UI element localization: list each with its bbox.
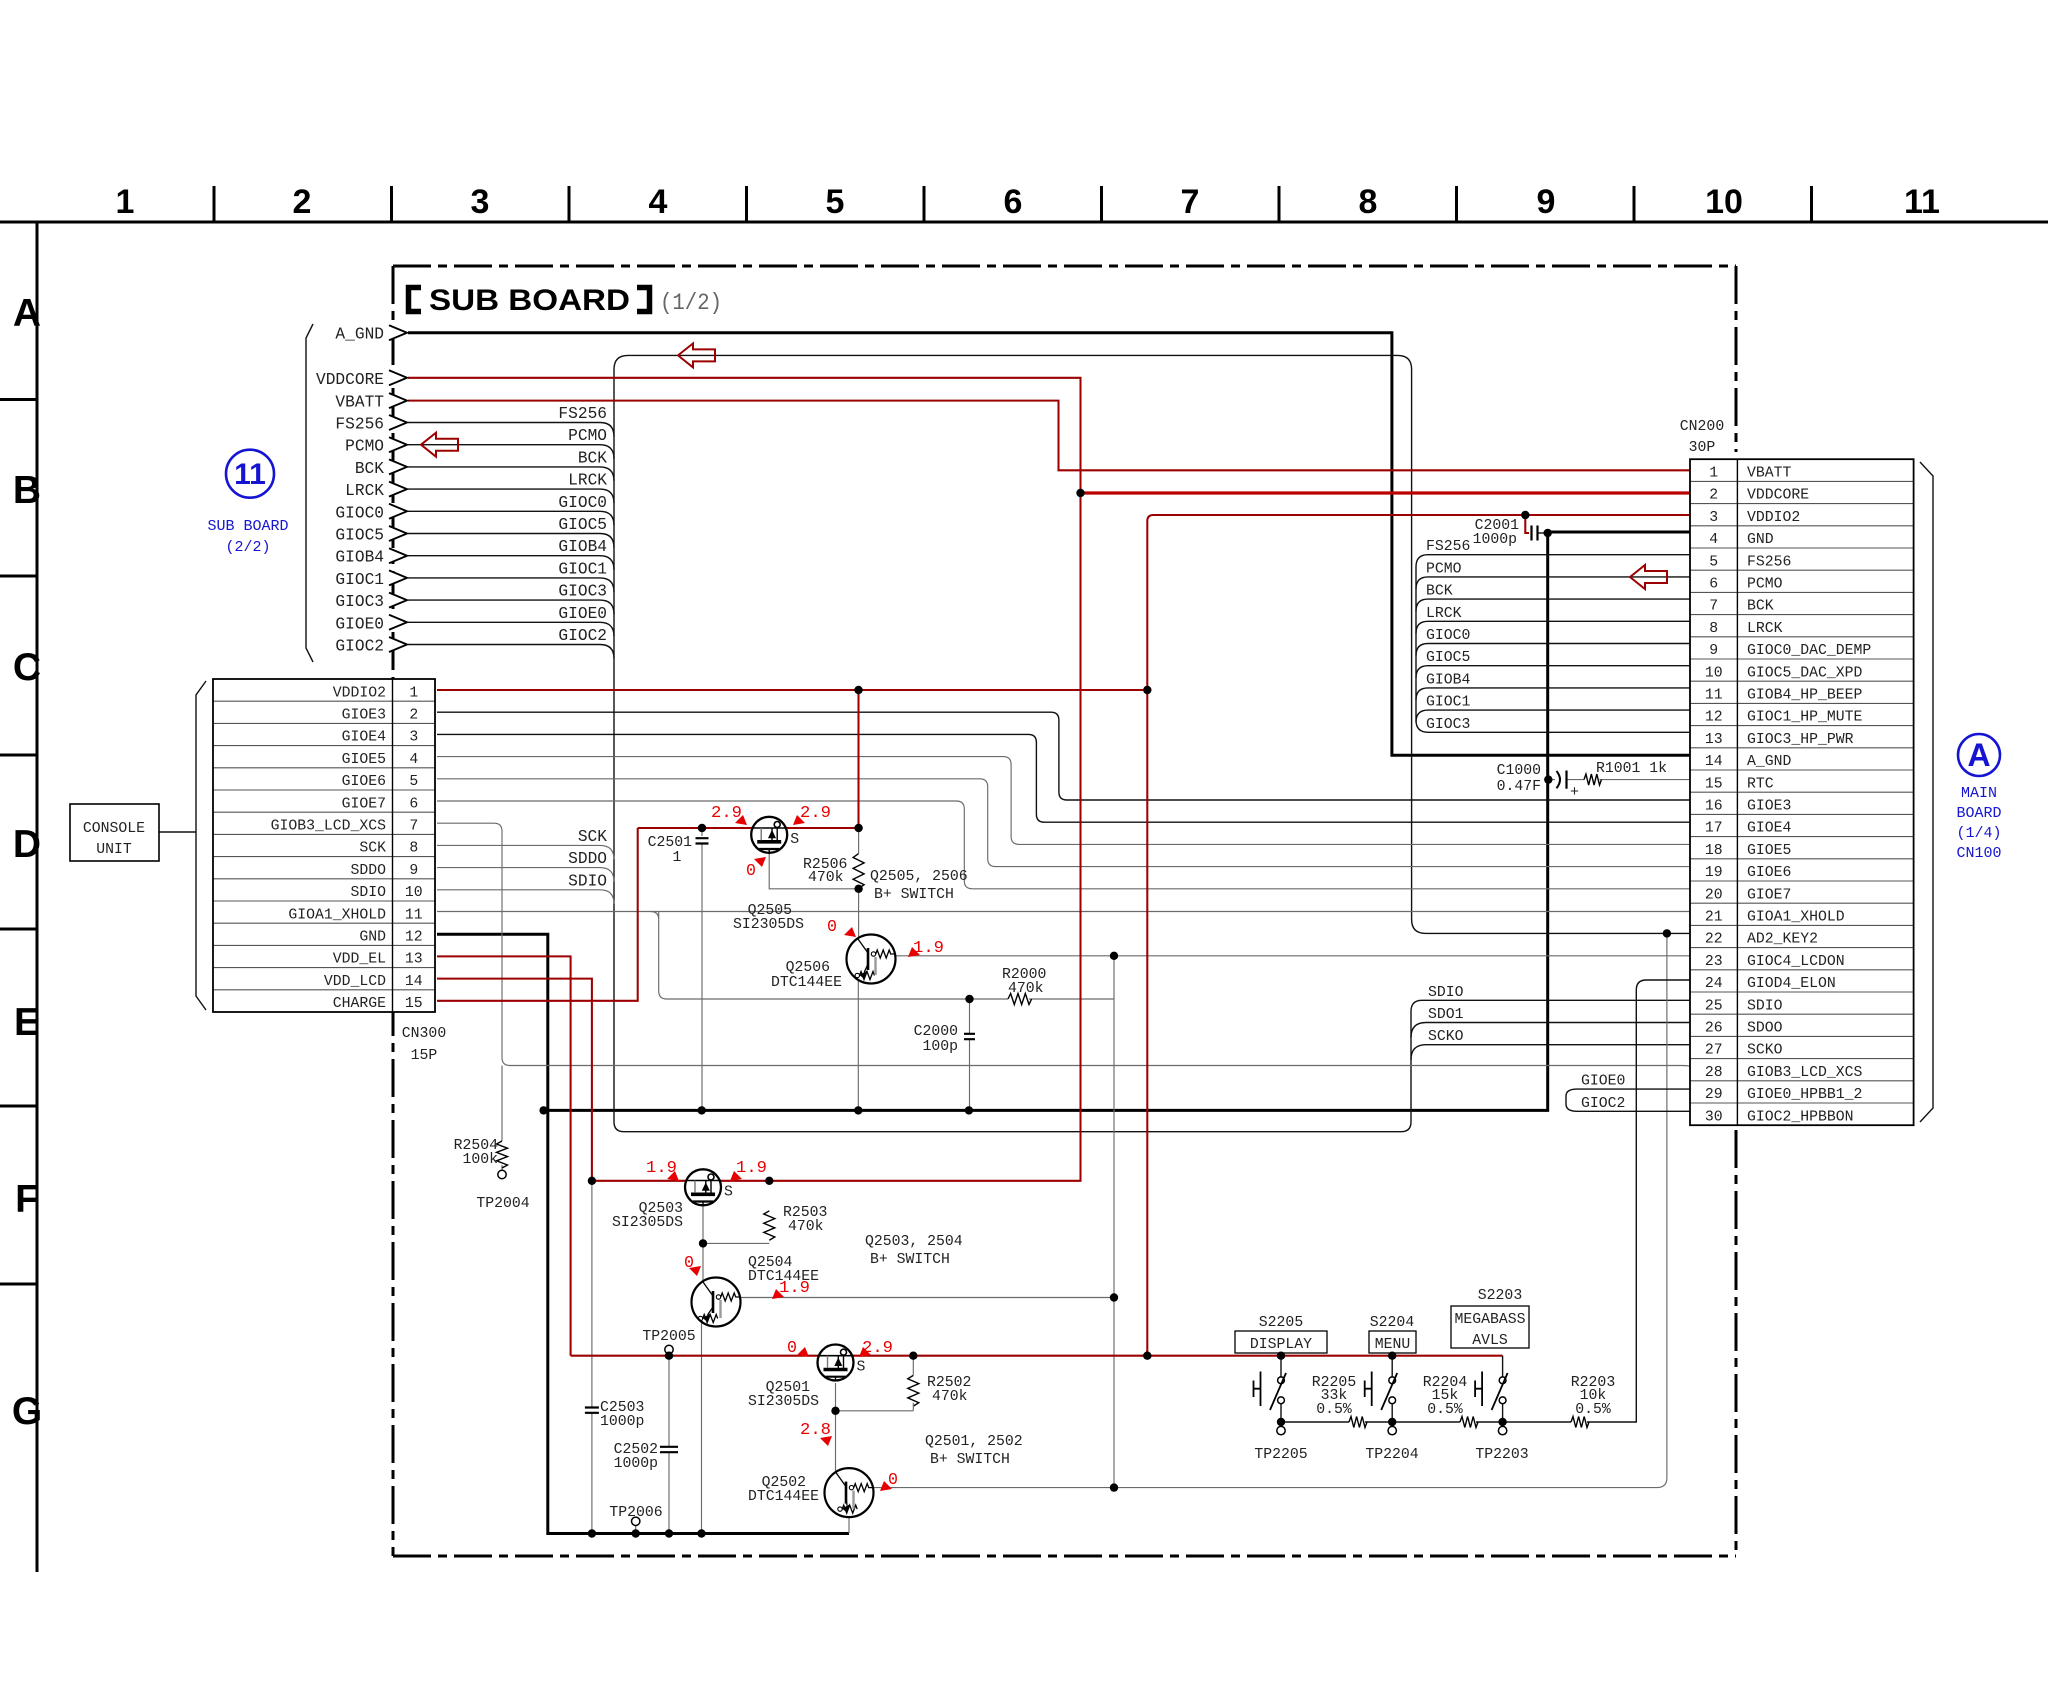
transistor Q2504 DTC144EE: [692, 1278, 741, 1327]
wire chevron LRCK merge: [408, 489, 614, 503]
svg-text:VDDIO2: VDDIO2: [333, 685, 386, 701]
wire Q2505 source row CHARGE to VDDIO2 node: [638, 827, 859, 829]
svg-text:PCMO: PCMO: [1426, 561, 1462, 577]
svg-text:SDIO: SDIO: [350, 885, 386, 901]
svg-text:GIOC2: GIOC2: [1581, 1096, 1625, 1112]
svg-text:GIOE5: GIOE5: [342, 752, 386, 768]
wire SDO1 stub merge: [1411, 1023, 1690, 1038]
wire chevron GIOE0 merge: [408, 622, 614, 636]
wire GIOE4 CN300 pin3 to CN200 pin17: [437, 734, 1690, 822]
svg-text:GIOE7: GIOE7: [1747, 887, 1791, 903]
svg-text:GIOE6: GIOE6: [1747, 865, 1791, 881]
svg-text:VDDIO2: VDDIO2: [1747, 510, 1800, 526]
svg-text:PCMO: PCMO: [345, 438, 384, 456]
svg-text:C2000: C2000: [914, 1024, 958, 1040]
svg-text:1.9: 1.9: [736, 1158, 767, 1177]
wire TP2006 stub: [635, 1526, 637, 1534]
svg-text:GIOC5: GIOC5: [1426, 650, 1470, 666]
svg-text:AD2_KEY2: AD2_KEY2: [1747, 932, 1818, 948]
svg-text:SDIO: SDIO: [1428, 985, 1464, 1001]
svg-text:GIOC1: GIOC1: [335, 571, 384, 589]
svg-text:S: S: [790, 832, 799, 848]
svg-text:VBATT: VBATT: [1747, 466, 1792, 482]
capacitor C2503: [585, 1408, 599, 1413]
wire GND CN200 pin4 to GND rail: [548, 532, 1690, 1110]
svg-text:GIOB4: GIOB4: [335, 549, 384, 567]
svg-text:3: 3: [471, 183, 490, 221]
wire VDD_LCD CN300 pin14 down to Q2503 rail: [437, 979, 592, 1181]
test point TP2004: [498, 1170, 506, 1178]
svg-text:GIOC0_DAC_DEMP: GIOC0_DAC_DEMP: [1747, 643, 1871, 659]
direction arrow near PCMO chevron: [421, 433, 458, 457]
wire GIOB3_LCD_XCS CN300 pin7 to CN200 pin28: [437, 823, 1690, 1067]
svg-text:BCK: BCK: [355, 460, 384, 478]
svg-text:GIOC1: GIOC1: [558, 560, 607, 578]
svg-text:SI2305DS: SI2305DS: [733, 917, 804, 933]
svg-text:100p: 100p: [922, 1039, 958, 1055]
wire chevron GIOC2 merge: [408, 645, 614, 659]
console unit box: [70, 804, 159, 861]
wire C2502 TP2005 branch leads: [668, 1356, 670, 1534]
svg-text:14: 14: [405, 974, 423, 990]
svg-text:VDDCORE: VDDCORE: [1747, 488, 1809, 504]
svg-text:TP2005: TP2005: [642, 1329, 695, 1345]
svg-text:TP2006: TP2006: [609, 1505, 662, 1521]
svg-text:GIOC2: GIOC2: [558, 627, 607, 645]
switch S2205: [1254, 1356, 1287, 1435]
svg-text:11: 11: [1904, 183, 1940, 221]
svg-text:11: 11: [1705, 688, 1723, 704]
svg-text:GIOC1_HP_MUTE: GIOC1_HP_MUTE: [1747, 710, 1863, 726]
wire left bus chevron FS256 merge into V1: [408, 423, 614, 437]
svg-text:MAIN: MAIN: [1961, 785, 1997, 802]
svg-text:2.8: 2.8: [800, 1420, 831, 1439]
wire C2001 black lead to GND: [1538, 532, 1548, 534]
resistor R2503: [764, 1211, 775, 1240]
svg-text:24: 24: [1705, 976, 1723, 992]
wire chevron GIOC3 merge: [408, 600, 614, 614]
transistor Q2505 MOSFET: [751, 817, 799, 853]
wire GIOA1_XHOLD CN300 pin11 to CN200 pin21: [437, 911, 1690, 913]
svg-text:20: 20: [1705, 887, 1723, 903]
svg-text:B: B: [13, 469, 41, 512]
svg-text:GIOA1_XHOLD: GIOA1_XHOLD: [288, 907, 386, 923]
svg-text:3: 3: [1709, 510, 1718, 526]
wire LRCK stub merge: [1416, 621, 1690, 633]
svg-text:14: 14: [1705, 754, 1723, 770]
wire GIOC0 stub merge: [1416, 644, 1690, 656]
svg-text:3: 3: [409, 730, 418, 746]
sub board dashed border right (split around CN200 table): [1735, 266, 1738, 452]
svg-text:10: 10: [1705, 183, 1743, 221]
svg-text:GIOB3_LCD_XCS: GIOB3_LCD_XCS: [271, 819, 387, 835]
svg-text:470k: 470k: [1008, 981, 1044, 997]
svg-text:LRCK: LRCK: [1747, 621, 1783, 637]
resistor R2502: [908, 1375, 919, 1406]
svg-text:A: A: [13, 292, 41, 335]
svg-text:13: 13: [1705, 732, 1723, 748]
wire switch ladder resistor line: [1281, 1421, 1571, 1423]
svg-text:S: S: [857, 1360, 866, 1376]
reference circle A MAIN BOARD 1/4 CN100: [1956, 734, 2001, 862]
left chevron signal stubs: [316, 325, 407, 655]
svg-text:A: A: [1967, 737, 1990, 773]
transistor Q2503 MOSFET: [685, 1169, 733, 1205]
svg-text:SUB BOARD: SUB BOARD: [429, 284, 630, 317]
svg-text:GIOE3: GIOE3: [1747, 799, 1791, 815]
wire C2501 leads: [701, 828, 703, 1110]
red voltage annotations: [646, 803, 944, 1491]
wire C2503 branch leads: [591, 1181, 593, 1534]
svg-text:GIOE0_HPBB1_2: GIOE0_HPBB1_2: [1747, 1087, 1862, 1103]
svg-text:4: 4: [1709, 532, 1718, 548]
svg-text:GIOE3: GIOE3: [342, 708, 386, 724]
svg-text:GIOE0: GIOE0: [558, 605, 607, 623]
svg-text:470k: 470k: [932, 1389, 968, 1405]
wire R2000 line right portion to x1114: [1029, 998, 1114, 1000]
wire VDDIO2 CN200 pin3 to switches rail: [1141, 515, 1690, 1356]
svg-text:FS256: FS256: [558, 405, 607, 423]
svg-text:SCK: SCK: [578, 828, 607, 846]
svg-text:BOARD: BOARD: [1956, 805, 2001, 822]
svg-text:15: 15: [405, 996, 423, 1012]
wire switches S rail: [571, 1355, 1503, 1357]
svg-text:19: 19: [1705, 865, 1723, 881]
svg-text:5: 5: [1709, 554, 1718, 570]
svg-text:5: 5: [826, 183, 845, 221]
svg-text:1000p: 1000p: [1473, 532, 1517, 548]
svg-text:AVLS: AVLS: [1472, 1333, 1508, 1349]
svg-text:15P: 15P: [411, 1048, 438, 1064]
wire A_GND thick black from chevron to CN200 pin14: [408, 333, 1690, 756]
direction arrow on top bus wire: [678, 343, 715, 367]
svg-text:R1001 1k: R1001 1k: [1596, 761, 1667, 777]
svg-text:+: +: [1570, 784, 1579, 801]
svg-text:7: 7: [1181, 183, 1200, 221]
svg-text:TP2004: TP2004: [476, 1196, 529, 1212]
svg-text:4: 4: [409, 752, 418, 768]
svg-text:FS256: FS256: [1747, 554, 1791, 570]
svg-text:CN200: CN200: [1680, 419, 1724, 435]
wire GIOB4 stub merge: [1416, 688, 1690, 700]
svg-text:GIOB4_HP_BEEP: GIOB4_HP_BEEP: [1747, 688, 1863, 704]
svg-text:2: 2: [1709, 488, 1718, 504]
svg-text:C1000: C1000: [1497, 763, 1541, 779]
wire gate node down to Q2504 base: [702, 1243, 704, 1281]
wire SCK merge into V1: [437, 845, 614, 859]
wire chevron BCK merge: [408, 467, 614, 481]
left ruler row ticks: [0, 400, 37, 1285]
svg-text:10: 10: [405, 885, 423, 901]
svg-text:GIOC5_DAC_XPD: GIOC5_DAC_XPD: [1747, 665, 1863, 681]
svg-text:GIOC3: GIOC3: [335, 593, 384, 611]
svg-text:TP2203: TP2203: [1475, 1447, 1528, 1463]
svg-text:CONSOLE: CONSOLE: [83, 821, 145, 837]
capacitor C2000: [964, 1034, 975, 1039]
svg-text:2: 2: [409, 708, 418, 724]
svg-text:GIOC3: GIOC3: [1426, 717, 1470, 733]
svg-text:13: 13: [405, 952, 423, 968]
svg-text:1: 1: [116, 183, 135, 221]
svg-text:MEGABASS: MEGABASS: [1454, 1312, 1525, 1328]
svg-text:GIOE4: GIOE4: [1747, 821, 1792, 837]
svg-text:0.5%: 0.5%: [1427, 1402, 1463, 1418]
transistor Q2502 DTC144EE: [825, 1468, 874, 1517]
svg-text:0: 0: [746, 861, 756, 880]
svg-text:B+ SWITCH: B+ SWITCH: [930, 1452, 1010, 1468]
svg-text:21: 21: [1705, 910, 1723, 926]
svg-text:0.47F: 0.47F: [1497, 779, 1541, 795]
wire VDD_EL CN300 pin13 down to switch rail corner: [437, 956, 571, 1355]
resistor R2504: [497, 1141, 508, 1168]
svg-text:GIOB3_LCD_XCS: GIOB3_LCD_XCS: [1747, 1065, 1863, 1081]
wire signal bus single line: pin25 SDIO stub, down right bus, bottom run, V1 up, top run, pin22 AD2_KEY2: [614, 355, 1690, 1131]
svg-text:1.9: 1.9: [779, 1278, 810, 1297]
svg-text:DTC144EE: DTC144EE: [771, 975, 842, 991]
bracket right of CN200: [1920, 462, 1933, 1122]
svg-text:D: D: [13, 823, 41, 866]
svg-text:SCKO: SCKO: [1428, 1029, 1464, 1045]
wire XHOLD branch down to R2000 line: [651, 912, 1008, 1000]
svg-text:SDIO: SDIO: [568, 872, 607, 890]
svg-text:0.5%: 0.5%: [1316, 1402, 1352, 1418]
wire CHARGE CN300 pin15: [437, 828, 638, 1001]
svg-text:A_GND: A_GND: [1747, 754, 1792, 770]
wire R2504 branch and TP2004: [501, 1066, 503, 1171]
wire GIOE6 CN300 pin5 to CN200 pin19: [437, 779, 1690, 867]
svg-text:6: 6: [1709, 577, 1718, 593]
svg-text:GIOC4_LCDON: GIOC4_LCDON: [1747, 954, 1845, 970]
svg-text:BCK: BCK: [578, 449, 607, 467]
svg-text:1000p: 1000p: [600, 1414, 644, 1430]
svg-text:GIOC1: GIOC1: [1426, 695, 1471, 711]
svg-text:12: 12: [1705, 710, 1723, 726]
svg-text:SDDO: SDDO: [568, 850, 607, 868]
svg-text:7: 7: [409, 819, 418, 835]
wire GIOC1 stub merge: [1416, 710, 1690, 722]
svg-text:11: 11: [234, 458, 266, 491]
svg-text:MENU: MENU: [1375, 1337, 1411, 1353]
svg-text:1000p: 1000p: [614, 1456, 658, 1472]
title SUB BOARD: [409, 288, 422, 312]
wire GIOE7 CN300 pin6 to CN200 pin20: [437, 801, 1690, 889]
bracket left of chevron group: [306, 324, 313, 662]
svg-text:(2/2): (2/2): [225, 539, 270, 556]
bracket left of CN300: [196, 681, 206, 1010]
svg-text:SDDO: SDDO: [350, 863, 386, 879]
wire VDDIO2 branch down to Q2505: [857, 690, 859, 828]
svg-text:RTC: RTC: [1747, 776, 1774, 792]
svg-text:S: S: [724, 1184, 733, 1200]
svg-text:8: 8: [409, 841, 418, 857]
wire VDDCORE pin2 thick segment: [1081, 491, 1691, 494]
dtc internal gray links: [874, 957, 876, 975]
sub board dashed border bottom: [393, 1555, 1736, 1558]
svg-text:GIOD4_ELON: GIOD4_ELON: [1747, 976, 1836, 992]
svg-text:VDDCORE: VDDCORE: [316, 371, 384, 389]
svg-text:GIOE7: GIOE7: [342, 796, 386, 812]
capacitor C1000 polarized: [1557, 771, 1561, 788]
svg-text:CN100: CN100: [1956, 845, 2001, 862]
wire GIOE0 pin29 stub and GIOC2 pin30 stub with merge: [1566, 1089, 1690, 1111]
svg-text:8: 8: [1359, 183, 1378, 221]
svg-text:0.5%: 0.5%: [1575, 1402, 1611, 1418]
svg-text:29: 29: [1705, 1087, 1723, 1103]
svg-text:1: 1: [1709, 466, 1718, 482]
svg-text:UNIT: UNIT: [96, 842, 132, 858]
svg-text:CN300: CN300: [402, 1026, 446, 1042]
top ruler ticks: [214, 186, 1812, 222]
svg-text:1: 1: [673, 850, 682, 866]
svg-text:S2205: S2205: [1259, 1315, 1303, 1331]
svg-text:GIOC2_HPBBON: GIOC2_HPBBON: [1747, 1109, 1854, 1125]
svg-text:LRCK: LRCK: [1426, 606, 1462, 622]
svg-text:Q2503, 2504: Q2503, 2504: [865, 1234, 963, 1250]
svg-text:GIOC3: GIOC3: [558, 583, 607, 601]
svg-text:SDIO: SDIO: [1747, 998, 1783, 1014]
svg-text:2: 2: [293, 183, 312, 221]
wire Q2504 collector output: [741, 1297, 1114, 1299]
wire SDIO merge into V1: [437, 890, 614, 904]
svg-text:PCMO: PCMO: [1747, 577, 1783, 593]
svg-text:Q2506: Q2506: [786, 960, 830, 976]
connector CN200 table: [1680, 419, 1933, 1125]
svg-text:G: G: [12, 1390, 42, 1433]
svg-text:SUB BOARD: SUB BOARD: [207, 518, 288, 535]
wire vertical node x1114: [1113, 956, 1115, 1488]
svg-text:26: 26: [1705, 1021, 1723, 1037]
switch label boxes: [1235, 1331, 1327, 1353]
svg-text:470k: 470k: [788, 1219, 824, 1235]
wire CN200 pin24 GIOD4_ELON riser to R2203: [1587, 980, 1690, 1422]
svg-text:28: 28: [1705, 1065, 1723, 1081]
wire Q2501 gate to R2502 bottom node: [836, 1383, 914, 1411]
svg-text:B+ SWITCH: B+ SWITCH: [870, 1252, 950, 1268]
svg-text:S2204: S2204: [1370, 1315, 1415, 1331]
svg-text:SDO1: SDO1: [1428, 1007, 1464, 1023]
sub board dashed border left: [392, 266, 395, 1556]
direction arrow near CN200 PCMO: [1630, 565, 1667, 589]
resistor R2000: [1008, 994, 1032, 1005]
svg-text:SCK: SCK: [359, 841, 386, 857]
wire PCMO stub merge: [1416, 577, 1690, 589]
wire gate node down to Q2502 base: [835, 1411, 837, 1471]
wire Q2503 gate to R2503 bottom node: [703, 1205, 769, 1243]
wire SCKO stub merge: [1411, 1045, 1690, 1060]
svg-text:LRCK: LRCK: [345, 482, 384, 500]
svg-text:(1/2): (1/2): [660, 290, 722, 316]
svg-text:GIOE6: GIOE6: [342, 774, 386, 790]
svg-text:FS256: FS256: [1426, 539, 1470, 555]
svg-text:GIOC0: GIOC0: [335, 504, 384, 522]
resistor R2204: [1460, 1417, 1478, 1428]
svg-text:GIOC0: GIOC0: [1426, 628, 1470, 644]
svg-text:2.9: 2.9: [711, 803, 742, 822]
svg-text:470k: 470k: [808, 870, 844, 886]
svg-text:18: 18: [1705, 843, 1723, 859]
svg-text:B+ SWITCH: B+ SWITCH: [874, 887, 954, 903]
svg-text:GIOA1_XHOLD: GIOA1_XHOLD: [1747, 910, 1845, 926]
wire chevron GIOB4 merge: [408, 556, 614, 570]
wire Q2502 collector output riser to pin22 line: [873, 933, 1667, 1487]
svg-text:GIOB4: GIOB4: [1426, 672, 1471, 688]
svg-text:0: 0: [827, 917, 837, 936]
svg-text:BCK: BCK: [1747, 599, 1774, 615]
svg-text:12: 12: [405, 930, 423, 946]
capacitor C2001: [1532, 526, 1538, 541]
svg-text:SDOO: SDOO: [1747, 1021, 1783, 1037]
wire Q2504 emitter to bottom GND rail: [701, 1322, 703, 1534]
switch S2203: [1475, 1356, 1508, 1435]
svg-text:CHARGE: CHARGE: [333, 996, 386, 1012]
resistor R2205: [1349, 1417, 1367, 1428]
svg-text:E: E: [14, 1001, 40, 1044]
svg-text:Q2505, 2506: Q2505, 2506: [870, 869, 968, 885]
svg-text:GIOC2: GIOC2: [335, 638, 384, 656]
svg-text:100k: 100k: [462, 1152, 498, 1168]
wire gate node down to Q2506 base: [858, 889, 860, 938]
svg-text:23: 23: [1705, 954, 1723, 970]
capacitor C2501: [696, 838, 709, 843]
svg-text:15: 15: [1705, 776, 1723, 792]
svg-text:GIOE0: GIOE0: [1581, 1074, 1625, 1090]
reference circle 11 SUB BOARD 2/2: [207, 450, 288, 556]
svg-text:C2501: C2501: [648, 835, 693, 851]
wire GIOE3 CN300 pin2 to CN200 pin16: [437, 712, 1690, 800]
svg-text:DTC144EE: DTC144EE: [748, 1489, 819, 1505]
svg-text:25: 25: [1705, 998, 1723, 1014]
svg-text:17: 17: [1705, 821, 1723, 837]
wire VDDCORE vertical down to Q2503 rail: [592, 493, 1081, 1181]
svg-text:1: 1: [409, 685, 418, 701]
left ruler line: [36, 222, 39, 1572]
wire C2001 red stub: [1525, 515, 1529, 533]
svg-text:GIOC5: GIOC5: [558, 516, 607, 534]
transistor Q2506 DTC144EE: [847, 935, 896, 984]
svg-text:TP2204: TP2204: [1365, 1447, 1418, 1463]
svg-text:9: 9: [1709, 643, 1718, 659]
wire GIOC5 stub merge: [1416, 666, 1690, 678]
svg-text:SI2305DS: SI2305DS: [612, 1215, 683, 1231]
svg-text:F: F: [15, 1178, 39, 1221]
wire chevron GIOC1 merge: [408, 578, 614, 592]
wire C1000 lead and R1001 line to CN200 pin15 RTC: [1548, 778, 1690, 780]
svg-text:PCMO: PCMO: [568, 427, 607, 445]
svg-text:GIOC0: GIOC0: [558, 494, 607, 512]
wire Q2506 collector output to CN200 pin23: [895, 955, 1690, 957]
capacitor C2502: [660, 1447, 678, 1452]
svg-text:GIOB4: GIOB4: [558, 538, 607, 556]
svg-text:11: 11: [405, 907, 423, 923]
wire chevron GIOC5 merge: [408, 534, 614, 548]
svg-text:2.9: 2.9: [800, 803, 831, 822]
svg-text:DISPLAY: DISPLAY: [1250, 1337, 1312, 1353]
svg-text:VDD_EL: VDD_EL: [333, 952, 386, 968]
svg-text:22: 22: [1705, 932, 1723, 948]
wire Q2506 emitter to GND rail: [857, 981, 859, 1110]
wire VBATT chevron to CN200 pin1: [408, 401, 1690, 471]
svg-text:16: 16: [1705, 799, 1723, 815]
test point TP2005: [665, 1345, 673, 1353]
wire BCK stub merge: [1416, 599, 1690, 611]
svg-text:GIOC5: GIOC5: [335, 527, 384, 545]
wire CONSOLE UNIT connection: [159, 831, 196, 833]
svg-text:GIOE0: GIOE0: [335, 615, 384, 633]
wire GND CN300 pin12 down to bottom rail: [437, 934, 849, 1533]
svg-text:6: 6: [1004, 183, 1023, 221]
wire VDDIO2 CN300 pin1 line: [437, 689, 1147, 691]
svg-text:Q2501, 2502: Q2501, 2502: [925, 1434, 1023, 1450]
